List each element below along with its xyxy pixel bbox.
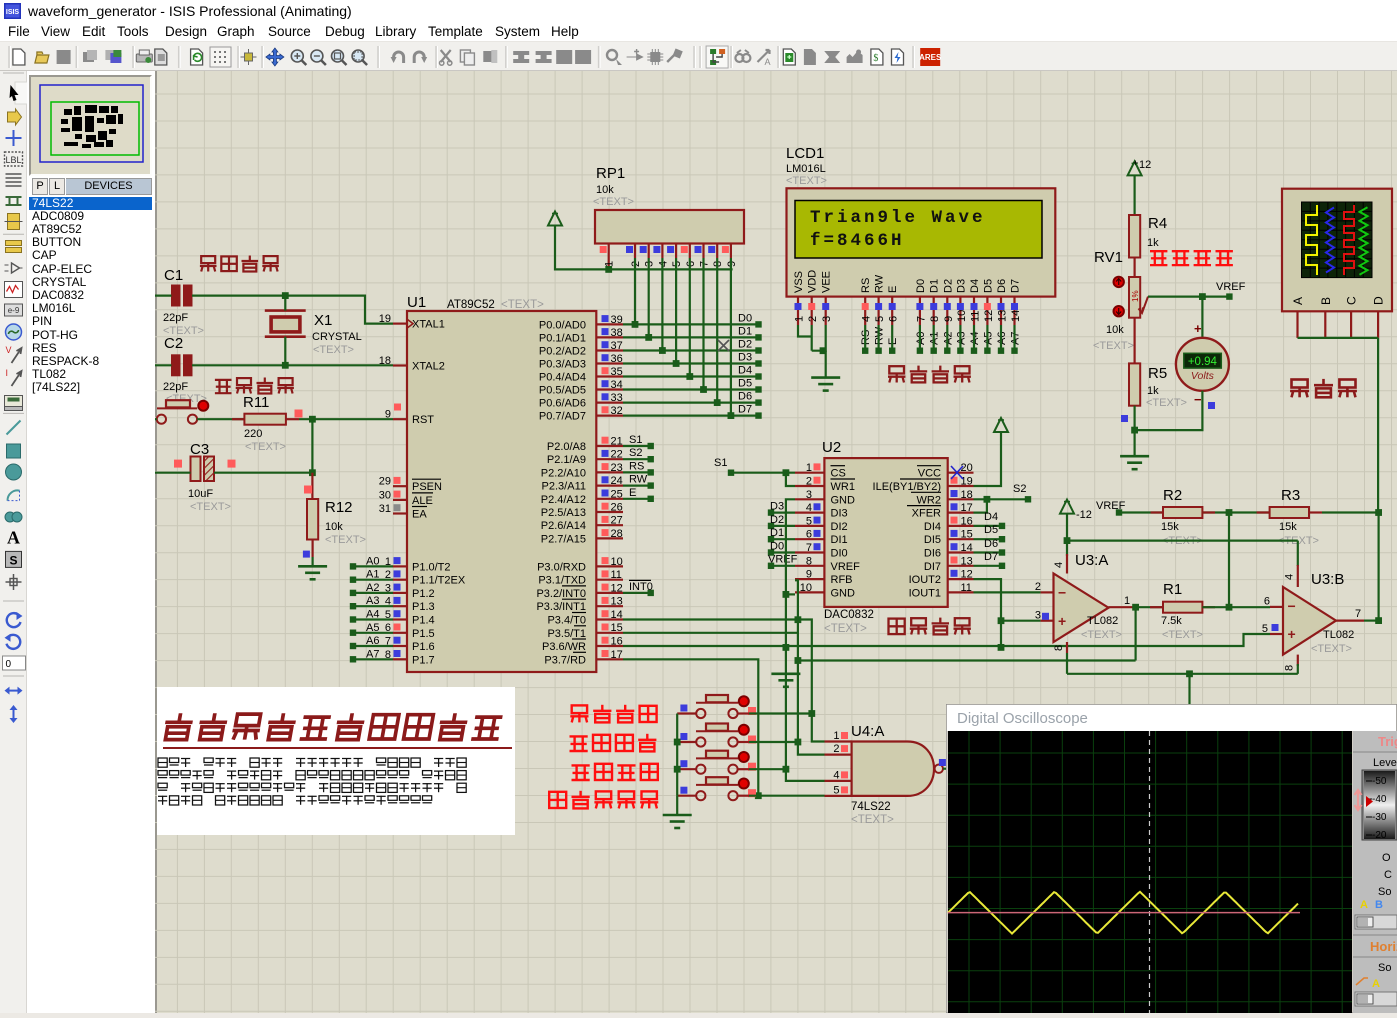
power +5V arrow [548, 212, 562, 226]
svg-text:P3.3/INT1: P3.3/INT1 [536, 601, 586, 613]
wire -12 to U3:A pin4 [1066, 541, 1068, 556]
svg-text:A: A [1372, 978, 1380, 990]
wire R12 to ground [312, 557, 314, 566]
svg-text:9: 9 [943, 316, 955, 322]
svg-text:TL082: TL082 [1087, 615, 1118, 627]
svg-text:+: + [1194, 321, 1202, 336]
svg-text:16: 16 [611, 636, 623, 648]
svg-text:XFER: XFER [912, 508, 941, 520]
U1 pin 37 [596, 349, 623, 351]
svg-text:P0.4/AD4: P0.4/AD4 [539, 372, 586, 384]
svg-text:5: 5 [806, 515, 812, 527]
wire LCD pin [1000, 325, 1002, 351]
U1 pin 27 [596, 524, 623, 526]
svg-text:33: 33 [611, 392, 623, 404]
U2 pin 3 [795, 498, 824, 500]
wire R11 to RST [299, 418, 393, 420]
U1 pin 24 [596, 485, 623, 487]
U2 pin 5 [795, 525, 824, 527]
svg-text:29: 29 [379, 476, 391, 488]
side panel: preview + device list [27, 71, 155, 1013]
U4 output wire [943, 768, 948, 770]
wire RS net [623, 471, 651, 473]
U1 pin 39 [596, 323, 623, 325]
svg-text:P3.5/T1: P3.5/T1 [547, 628, 586, 640]
U1 pin 30 [393, 499, 407, 501]
svg-text:C3: C3 [190, 441, 209, 458]
svg-text:22: 22 [611, 449, 623, 461]
svg-text:38: 38 [611, 327, 623, 339]
svg-text:32: 32 [611, 405, 623, 417]
svg-text:X1: X1 [314, 312, 332, 329]
svg-text:11: 11 [970, 311, 982, 322]
power +12 arrow [1128, 161, 1142, 175]
svg-text:EA: EA [412, 509, 427, 521]
button reset [157, 415, 166, 424]
wire A6 [354, 645, 393, 647]
wire R1 to U3:B - [1202, 606, 1270, 608]
wire voltmeter to ground rail [1135, 391, 1203, 430]
svg-text:27: 27 [611, 515, 623, 527]
svg-text:P2.7/A15: P2.7/A15 [541, 533, 586, 545]
svg-text:11: 11 [611, 569, 622, 581]
U1 pin 16 [596, 645, 623, 647]
svg-text:DI6: DI6 [924, 548, 941, 560]
svg-text:f=8466H: f=8466H [810, 231, 905, 251]
svg-text:VREF: VREF [768, 554, 798, 566]
svg-text:R4: R4 [1148, 215, 1167, 232]
wire rail to ground [676, 796, 678, 815]
svg-text:<TEXT>: <TEXT> [1093, 340, 1134, 352]
svg-text:<TEXT>: <TEXT> [501, 299, 544, 311]
svg-text:<TEXT>: <TEXT> [1081, 629, 1122, 641]
resistor R3 [1257, 511, 1270, 513]
left tool column [0, 71, 27, 1013]
svg-text:So: So [1378, 886, 1391, 898]
wire R5 to ground rail [1133, 406, 1135, 430]
wire LCD pin [959, 325, 961, 351]
svg-text:A3: A3 [366, 595, 379, 607]
U2 pin 15 [948, 538, 974, 540]
U1 pin 21 [596, 445, 623, 447]
svg-text:1: 1 [833, 730, 839, 742]
U1 pin 1 [393, 565, 407, 567]
U1 pin 22 [596, 458, 623, 460]
wire C1 to XTAL1 [152, 295, 172, 297]
scope trace D green [1360, 207, 1368, 275]
wire button2 to net [749, 741, 798, 743]
title 片机的五种波形发生器 [162, 713, 194, 739]
U2 pin 12 [948, 578, 974, 580]
svg-text:P3.4/T0: P3.4/T0 [547, 615, 586, 627]
ground R5 [1120, 455, 1149, 458]
svg-text:P0.7/AD7: P0.7/AD7 [539, 411, 586, 423]
svg-text:A5: A5 [366, 622, 379, 634]
wire LCD VSS VDD VEE to ground [798, 325, 812, 337]
svg-text:39: 39 [611, 314, 623, 326]
svg-text:P1.2: P1.2 [412, 588, 435, 600]
svg-text:WR2: WR2 [917, 494, 941, 506]
wire D0 to U2 [771, 551, 795, 553]
svg-text:VCC: VCC [918, 468, 941, 480]
U4 pin 5 [825, 795, 852, 797]
U1 pin 12 [596, 592, 623, 594]
wire VREF to R2 [1116, 509, 1122, 515]
svg-text:DI1: DI1 [831, 534, 848, 546]
wire D7 net [623, 415, 758, 417]
svg-text:U3:A: U3:A [1075, 552, 1108, 569]
svg-text:10k: 10k [596, 184, 614, 196]
svg-text:−: − [1288, 598, 1296, 614]
scope trace C red [1344, 205, 1354, 275]
U4 pin 4 [825, 780, 852, 782]
toolbar [0, 42, 1397, 71]
svg-text:P2.0/A8: P2.0/A8 [547, 441, 586, 453]
U2 pin 16 [948, 525, 974, 527]
svg-text:U3:B: U3:B [1311, 571, 1344, 588]
text 复位电路 [215, 380, 232, 393]
ground buttons [663, 814, 692, 817]
svg-text:RV1: RV1 [1094, 249, 1123, 266]
RP1 pin 3 [648, 244, 650, 259]
svg-text:10k: 10k [325, 521, 343, 533]
svg-text:4: 4 [806, 502, 812, 514]
svg-text:<TEXT>: <TEXT> [325, 534, 366, 546]
wire RV1 to R5 [1133, 318, 1135, 364]
svg-text:A4: A4 [366, 609, 379, 621]
resistor R1 [1163, 602, 1202, 613]
wire RV1 wiper to VREF [1148, 296, 1229, 298]
svg-text:17: 17 [961, 502, 973, 514]
ground U2 [771, 672, 800, 675]
wire button 3 left [677, 768, 696, 770]
U3:A pin8 [1066, 642, 1068, 653]
ground LCD [811, 376, 840, 379]
svg-text:D6: D6 [738, 391, 752, 403]
U1 pin 33 [596, 402, 623, 404]
U2 pin 13 [948, 565, 974, 567]
wire button 2 right [738, 741, 749, 743]
U3:B pin8 [1297, 655, 1299, 666]
U3:A input stubs [1041, 591, 1054, 593]
svg-text:PSEN: PSEN [412, 481, 442, 493]
svg-text:R5: R5 [1148, 365, 1167, 382]
wire P3.5 net [623, 632, 798, 634]
U1 pin 7 [393, 645, 407, 647]
wire D3 net [623, 362, 758, 364]
svg-text:E: E [887, 286, 899, 293]
svg-text:-50: -50 [1372, 776, 1387, 787]
wire RFB vertical [795, 580, 825, 754]
RP1 pin 7 [702, 244, 704, 259]
svg-text:P3.0/RXD: P3.0/RXD [537, 561, 586, 573]
svg-text:ILE(BY1/BY2): ILE(BY1/BY2) [873, 481, 941, 493]
text 数模电路 [889, 619, 905, 635]
svg-text:WR1: WR1 [831, 481, 855, 493]
wire X1 bottom [284, 337, 286, 366]
svg-text:D1: D1 [738, 325, 752, 337]
svg-text:−: − [1194, 392, 1202, 407]
U4 pin 2 [825, 753, 852, 755]
svg-text:A1: A1 [366, 569, 379, 581]
U3:A output [1109, 606, 1136, 608]
svg-text:RS: RS [629, 460, 644, 472]
wire D4 net [623, 375, 758, 377]
svg-text:P2.4/A12: P2.4/A12 [541, 494, 586, 506]
U1 pin 23 [596, 471, 623, 473]
U2 pin 6 [795, 538, 824, 540]
button SW1 [696, 709, 705, 718]
svg-text:<TEXT>: <TEXT> [593, 196, 634, 208]
svg-text:0: 0 [6, 659, 12, 670]
svg-text:15k: 15k [1161, 521, 1179, 533]
wire U2 WR1 link [786, 473, 795, 486]
wire +5V rail to RP1 pin1 [555, 226, 733, 270]
wire LCD pin [919, 325, 921, 351]
wire D5 net [623, 388, 758, 390]
wire button3 to U4 pin4 [749, 768, 786, 770]
svg-text:So: So [1378, 962, 1391, 974]
wire RFB branch to U3:A out [798, 659, 1136, 661]
svg-text:Trig: Trig [1378, 734, 1397, 749]
svg-text:DI2: DI2 [831, 521, 848, 533]
svg-text:RST: RST [412, 414, 434, 426]
wire A7 [354, 658, 393, 660]
svg-text:A2: A2 [366, 582, 379, 594]
resistor R4 [1129, 215, 1140, 258]
svg-text:P3.6/WR: P3.6/WR [542, 641, 586, 653]
svg-text:LBL: LBL [5, 155, 21, 165]
svg-text:XTAL1: XTAL1 [412, 319, 445, 331]
U1 pin 13 [596, 605, 623, 607]
svg-text:P1.6: P1.6 [412, 641, 435, 653]
svg-text:O: O [1382, 852, 1391, 864]
svg-text:A: A [7, 528, 20, 548]
svg-text:12: 12 [983, 310, 995, 322]
svg-text:<TEXT>: <TEXT> [786, 175, 827, 187]
wire R2R3 junction down to R1 row [1228, 513, 1230, 608]
svg-text:25: 25 [611, 488, 623, 500]
svg-text:D5: D5 [984, 524, 998, 536]
wire U2 GND3 vertical [786, 499, 825, 781]
svg-text:+0.94: +0.94 [1188, 356, 1218, 368]
U1 pin 36 [596, 362, 623, 364]
svg-text:+: + [1058, 613, 1066, 629]
wire A2 [354, 592, 393, 594]
svg-text:7: 7 [1355, 608, 1361, 620]
svg-text:LCD1: LCD1 [786, 145, 824, 162]
svg-text:LM016L: LM016L [786, 163, 826, 175]
svg-text:VREF: VREF [1216, 281, 1246, 293]
svg-text:A: A [1360, 899, 1368, 911]
U1 pin 35 [596, 375, 623, 377]
resistor R11 [197, 418, 244, 420]
wire button 4 left [677, 795, 696, 797]
svg-text:13: 13 [997, 310, 1009, 322]
wire LCD pin [973, 325, 975, 351]
svg-text:13: 13 [611, 596, 623, 608]
svg-text:15k: 15k [1279, 521, 1297, 533]
wire LCD pin [864, 325, 866, 351]
U1 pin 5 [393, 618, 407, 620]
svg-text:22pF: 22pF [163, 312, 188, 324]
U2 pin 11 [948, 591, 974, 593]
wire button 2 left [677, 741, 696, 743]
svg-text:D7: D7 [1010, 279, 1022, 293]
svg-text:5: 5 [833, 784, 839, 796]
svg-text:<TEXT>: <TEXT> [1146, 397, 1187, 409]
svg-text:V: V [6, 345, 12, 355]
svg-text:P0.6/AD6: P0.6/AD6 [539, 398, 586, 410]
wire D3 to U2 [771, 511, 795, 513]
svg-text:B: B [1319, 297, 1333, 305]
svg-text:A7: A7 [366, 648, 379, 660]
wire X1 top [284, 296, 286, 311]
U1 pin 4 [393, 605, 407, 607]
wire button 4 right [738, 795, 749, 797]
U1 pin 34 [596, 388, 623, 390]
svg-text:D: D [1372, 296, 1386, 305]
svg-text:D2: D2 [738, 339, 752, 351]
wire LCD pin [891, 325, 893, 351]
svg-text:8: 8 [929, 316, 941, 322]
wire P3.6 net [623, 634, 1270, 646]
svg-text:220: 220 [244, 428, 262, 440]
svg-text:+: + [1133, 158, 1138, 168]
U1 pin 10 [596, 565, 623, 567]
RP1 pin 1 [608, 244, 610, 270]
U3:B pin4 [1297, 541, 1299, 566]
svg-text:C2: C2 [164, 335, 183, 352]
U4 pin 1 [825, 740, 852, 742]
U1 pin 25 [596, 498, 623, 500]
svg-text:B: B [1375, 899, 1383, 911]
svg-text:-40: -40 [1372, 794, 1387, 805]
wire scope D to U3:B out [1377, 338, 1379, 513]
svg-text:12: 12 [611, 582, 623, 594]
RP1 pin 9 [730, 244, 732, 259]
svg-text:GND: GND [831, 494, 856, 506]
no-connect marker X [718, 340, 729, 351]
svg-text:<TEXT>: <TEXT> [190, 501, 231, 513]
svg-text:P2.1/A9: P2.1/A9 [547, 454, 586, 466]
svg-text:IOUT2: IOUT2 [909, 574, 941, 586]
svg-text:-12: -12 [1076, 509, 1092, 521]
svg-text:8: 8 [806, 555, 812, 567]
svg-text:16: 16 [961, 515, 973, 527]
U1 pin 8 [393, 658, 407, 660]
svg-text:15: 15 [611, 622, 623, 634]
svg-text:VSS: VSS [793, 271, 805, 293]
svg-text:DAC0832: DAC0832 [824, 609, 874, 621]
svg-text:<TEXT>: <TEXT> [313, 344, 354, 356]
text 显示电路 [888, 366, 905, 382]
U2 pin 1 [795, 472, 824, 474]
svg-text:20: 20 [961, 462, 973, 474]
svg-text:D2: D2 [942, 279, 954, 293]
svg-text:10uF: 10uF [188, 488, 213, 500]
svg-text:4: 4 [1284, 574, 1296, 580]
svg-text:RS: RS [860, 278, 872, 293]
text 频率减少 [572, 765, 590, 780]
svg-text:37: 37 [611, 340, 623, 352]
U3:B pin6 stub [1270, 606, 1283, 608]
svg-text:4: 4 [1053, 562, 1065, 568]
U3:B pin5 stub [1270, 633, 1283, 635]
U1 pin 11 [596, 579, 623, 581]
svg-text:6: 6 [888, 316, 900, 322]
svg-text:A0: A0 [366, 555, 379, 567]
svg-text:2: 2 [807, 316, 819, 322]
svg-text:D3: D3 [738, 352, 752, 364]
scope trace B blue [1326, 208, 1334, 273]
svg-text:<TEXT>: <TEXT> [1311, 643, 1352, 655]
svg-text:P1.5: P1.5 [412, 628, 435, 640]
button SW2 [696, 737, 705, 746]
wire rail drop to scope area [1188, 674, 1190, 731]
svg-text:6: 6 [1264, 596, 1270, 608]
wire A5 [354, 632, 393, 634]
svg-text:R2: R2 [1163, 487, 1182, 504]
wire P3.4 net [623, 620, 825, 742]
RP1 pin 8 [716, 244, 718, 259]
svg-text:D0: D0 [770, 540, 784, 552]
svg-text:12: 12 [1139, 159, 1151, 171]
svg-text:35: 35 [611, 366, 623, 378]
svg-text:GND: GND [831, 587, 856, 599]
svg-text:+: + [1288, 626, 1296, 642]
wire scope pins common [1298, 337, 1379, 339]
wire U2 GND10 link [786, 593, 795, 595]
svg-text:13: 13 [961, 555, 973, 567]
RP1 pin 6 [689, 244, 691, 259]
preview green sheet [51, 102, 139, 155]
wire A0 [354, 565, 393, 567]
svg-text:26: 26 [611, 502, 623, 514]
svg-text:-20: -20 [1372, 830, 1387, 841]
U1 pin 3 [393, 592, 407, 594]
wire WR2 XFER S2 [974, 498, 1029, 500]
svg-text:IOUT1: IOUT1 [909, 587, 941, 599]
svg-text:ISIS: ISIS [6, 9, 20, 16]
svg-text:1k: 1k [1147, 385, 1159, 397]
svg-text:A6: A6 [366, 635, 379, 647]
svg-text:RW: RW [874, 274, 886, 293]
svg-text:2: 2 [1035, 581, 1041, 593]
op-amp U3:A [1054, 574, 1109, 643]
svg-text:U1: U1 [407, 294, 426, 311]
svg-text:D4: D4 [969, 279, 981, 293]
svg-text:17: 17 [611, 649, 623, 661]
svg-text:2: 2 [806, 476, 812, 488]
U2 pin 14 [948, 551, 974, 553]
svg-text:CS: CS [831, 468, 846, 480]
svg-text:Volts: Volts [1191, 370, 1215, 382]
U2 pin 9 [795, 578, 824, 580]
power -12 arrow [1060, 500, 1074, 514]
svg-text:P0.2/AD2: P0.2/AD2 [539, 346, 586, 358]
wire button 1 left [677, 712, 696, 714]
U1 pin 19 [393, 323, 407, 325]
svg-text:Digital Oscilloscope: Digital Oscilloscope [957, 710, 1088, 727]
svg-text:3: 3 [806, 489, 812, 501]
svg-text:7.5k: 7.5k [1161, 615, 1182, 627]
svg-text:S1: S1 [629, 434, 642, 446]
svg-text:14: 14 [1010, 310, 1022, 322]
svg-text:10k: 10k [1106, 324, 1124, 336]
svg-text:9: 9 [806, 569, 812, 581]
wire output1 to R1 [1136, 606, 1163, 608]
